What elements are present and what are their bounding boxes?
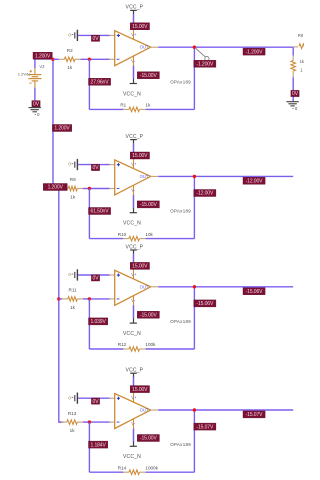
- resistor R7 load vertical: [291, 61, 296, 72]
- pin text OUT stage4: [140, 408, 149, 413]
- wire feedback down-leg stage4: [88, 422, 90, 472]
- wire feedback bottom-left stage2: [89, 238, 129, 240]
- svg-text:R12: R12: [118, 342, 127, 347]
- junction output node stage3: [193, 285, 196, 288]
- label VCC_P stage4: [126, 368, 144, 374]
- svg-text:V+: V+: [131, 272, 137, 277]
- label OPAx189 stage2: [170, 209, 191, 214]
- pin text V+ stage4: [131, 395, 137, 400]
- svg-text:VCC_P: VCC_P: [126, 134, 144, 140]
- svg-text:V3: V3: [39, 64, 45, 69]
- svg-text:-15.06V: -15.06V: [196, 301, 214, 307]
- wire feedback up-leg stage2: [193, 176, 195, 238]
- power terminal VCC_N stage2: [130, 208, 137, 213]
- pin + mark stage4: [117, 397, 120, 400]
- svg-text:V+: V+: [131, 395, 137, 400]
- svg-text:0V: 0V: [93, 399, 100, 405]
- wire resistor to - input stage3: [77, 298, 114, 300]
- pin text V+ stage2: [131, 161, 137, 166]
- node label 27.96nV stage1: [89, 78, 111, 85]
- node label -12.00V at output junction stage2: [194, 190, 216, 197]
- svg-text:-15.00V: -15.00V: [140, 436, 158, 442]
- node label 0V at V3: [32, 101, 40, 108]
- svg-text:1000k: 1000k: [145, 465, 158, 470]
- wire output stage1: [158, 46, 293, 48]
- resistor R1 1k feedback stage1: [129, 107, 140, 112]
- svg-text:100k: 100k: [145, 342, 156, 347]
- svg-text:-1.200V: -1.200V: [246, 49, 264, 55]
- ground right / net 0: [286, 102, 298, 111]
- svg-text:1.200V: 1.200V: [54, 126, 70, 132]
- power terminal VCC_P stage2: [130, 140, 137, 144]
- svg-text:15.00V: 15.00V: [132, 24, 148, 30]
- node label 1.200V stage2: [43, 184, 67, 191]
- pin text OUT stage1: [140, 45, 149, 50]
- battery V3 1.2Vdc: [28, 68, 41, 87]
- svg-text:-12.00V: -12.00V: [196, 191, 214, 197]
- wire feedback up-leg stage1: [193, 47, 195, 109]
- node label 1.200V on rail: [52, 125, 71, 132]
- node label -15.00V stage2: [137, 201, 159, 208]
- ground at V3 / net 0: [29, 108, 41, 117]
- svg-text:27.96nV: 27.96nV: [91, 80, 110, 86]
- value 1k of R9: [70, 194, 76, 199]
- node label 1.200V at V3: [33, 52, 52, 59]
- wire 0V source to op-amp + input stage4: [78, 397, 115, 399]
- wire resistor to - input stage2: [77, 188, 115, 190]
- svg-text:R14: R14: [118, 465, 127, 470]
- label R14: [118, 465, 127, 470]
- label 10k of R7: [300, 59, 305, 73]
- wire resistor to - input stage4: [77, 421, 114, 423]
- node label 15.00V stage2: [130, 152, 149, 159]
- svg-text:OUT: OUT: [140, 174, 149, 179]
- svg-text:-12.00V: -12.00V: [246, 179, 264, 185]
- node label 15.00V stage3: [130, 262, 149, 269]
- voltage source V3 top wire / node 1.200V: [35, 56, 53, 68]
- node label 0V stage1: [91, 35, 99, 42]
- wire rail 1.200V stage2-4: [59, 190, 64, 423]
- pin text V- stage1: [131, 58, 136, 63]
- wire 0V source to op-amp + input stage3: [78, 274, 115, 276]
- node label 0V stage3: [91, 275, 99, 282]
- svg-text:0V: 0V: [93, 165, 100, 171]
- svg-text:-15.00V: -15.00V: [140, 313, 158, 319]
- node label -15.00V stage4: [137, 435, 159, 442]
- pin - mark stage2: [117, 188, 120, 190]
- svg-text:-15.07V: -15.07V: [196, 424, 214, 430]
- label R12: [118, 342, 127, 347]
- wire rail 1.200V stage1-2: [52, 59, 54, 190]
- svg-text:VCC_P: VCC_P: [126, 244, 144, 250]
- svg-text:OPAx189: OPAx189: [170, 209, 191, 214]
- wire feedback down-leg stage1: [88, 59, 90, 109]
- node label -15.06V on output wire stage3: [243, 288, 265, 295]
- label R10: [118, 232, 127, 237]
- label VCC_N stage4: [123, 454, 141, 460]
- wire lead to load resistor: [292, 55, 294, 60]
- svg-text:1.039V: 1.039V: [90, 319, 106, 325]
- pin text V- stage4: [131, 421, 136, 426]
- wire VCC_P to op-amp stage1: [133, 14, 135, 40]
- svg-text:0: 0: [68, 395, 71, 400]
- value 1k of R11: [70, 305, 76, 310]
- label VCC_P stage1: [126, 5, 144, 11]
- svg-text:0V: 0V: [33, 101, 40, 107]
- pin - mark stage1: [117, 58, 120, 60]
- wire op-amp to VCC_N stage4: [133, 419, 135, 442]
- svg-text:R1: R1: [120, 103, 126, 108]
- wire rail to resistor stage2: [53, 188, 68, 190]
- pin + mark stage3: [117, 274, 120, 277]
- node label 0V right: [291, 90, 299, 97]
- probe marker stage1: [195, 48, 209, 61]
- voltage source 0V stage1 (battery): [68, 30, 77, 41]
- node label -15.07V at output junction stage4: [194, 423, 216, 430]
- value 1.2Vdc: [18, 71, 30, 76]
- wire op-amp output stub stage2: [151, 175, 159, 177]
- wire feedback bottom-left stage1: [89, 108, 129, 110]
- svg-text:1.2Vdc: 1.2Vdc: [18, 71, 30, 76]
- wire rail to resistor stage4: [59, 421, 67, 423]
- svg-text:0: 0: [68, 272, 71, 277]
- label R11: [69, 288, 78, 293]
- junction rail-input stage1: [51, 58, 54, 61]
- resistor R11 1k stage3 input: [68, 297, 78, 302]
- op-amp U3 OPAx189: [115, 270, 151, 305]
- svg-text:R13: R13: [68, 411, 77, 416]
- junction output node stage4: [193, 408, 196, 411]
- pin text OUT stage2: [140, 174, 149, 179]
- svg-text:V+: V+: [131, 161, 137, 166]
- label R1: [120, 103, 126, 108]
- resistor R13 1k stage4 input: [67, 420, 78, 425]
- label R2: [67, 48, 73, 53]
- svg-text:VCC_N: VCC_N: [123, 331, 141, 337]
- wire rail to resistor stage1: [53, 58, 64, 60]
- svg-text:1.200V: 1.200V: [35, 53, 51, 59]
- svg-text:OPAx189: OPAx189: [170, 442, 191, 447]
- voltage source 0V stage4 (battery): [68, 393, 77, 404]
- svg-text:-15.00V: -15.00V: [140, 202, 158, 208]
- wire resistor to - input stage1: [75, 58, 115, 60]
- op-amp U4 OPAx189: [115, 394, 151, 429]
- svg-text:OUT: OUT: [140, 408, 149, 413]
- node label 1.184V stage4: [89, 441, 108, 448]
- wire to resistor R8: [293, 46, 298, 48]
- svg-text:1k: 1k: [300, 59, 304, 64]
- node label -15.06V at output junction stage3: [194, 300, 216, 307]
- svg-text:-1.200V: -1.200V: [196, 62, 214, 68]
- node label 0V stage2: [91, 164, 99, 171]
- svg-text:15.00V: 15.00V: [132, 387, 148, 393]
- node label -1.200V on output wire stage1: [243, 48, 265, 55]
- svg-text:R10: R10: [118, 232, 127, 237]
- svg-text:VCC_N: VCC_N: [123, 454, 141, 460]
- power terminal VCC_P stage1: [130, 10, 137, 14]
- wire feedback bottom-right stage4: [140, 471, 195, 473]
- power terminal VCC_N stage3: [130, 318, 137, 323]
- junction output node stage1: [193, 46, 196, 49]
- node label -1.200V at output junction stage1: [194, 60, 216, 67]
- wire VCC_P to op-amp stage4: [133, 377, 135, 403]
- wire feedback bottom-right stage1: [140, 108, 195, 110]
- label V3: [39, 64, 45, 69]
- power terminal VCC_N stage1: [130, 79, 137, 84]
- wire VCC_P to op-amp stage2: [133, 143, 135, 169]
- label VCC_N stage1: [123, 91, 141, 97]
- value 1k of R1: [145, 103, 151, 108]
- svg-text:VCC_P: VCC_P: [126, 5, 144, 11]
- value 1k of R13: [70, 428, 76, 433]
- wire op-amp to VCC_N stage1: [133, 56, 135, 79]
- wire 0V source to op-amp + input stage2: [78, 164, 115, 166]
- svg-text:R9: R9: [70, 177, 76, 182]
- junction - input node stage3: [88, 297, 91, 300]
- junction - input node stage2: [88, 187, 91, 190]
- junction - input node stage1: [88, 58, 91, 61]
- svg-text:1.184V: 1.184V: [90, 442, 106, 448]
- wire feedback bottom-left stage4: [89, 471, 129, 473]
- value 100k of R12: [145, 342, 156, 347]
- node label -15.00V stage3: [137, 311, 159, 318]
- node label 0V stage4: [91, 398, 99, 405]
- svg-text:VCC_P: VCC_P: [126, 368, 144, 374]
- svg-text:1k: 1k: [70, 428, 76, 433]
- svg-text:OPAx189: OPAx189: [170, 79, 191, 84]
- power terminal VCC_P stage3: [130, 250, 137, 254]
- svg-text:0: 0: [68, 33, 71, 38]
- wire output stage3: [158, 286, 293, 288]
- label VCC_N stage2: [123, 221, 141, 227]
- svg-text:V+: V+: [131, 32, 137, 37]
- resistor R12 100k feedback stage3: [129, 347, 140, 352]
- pin text V+ stage3: [131, 272, 137, 277]
- wire op-amp output stub stage4: [151, 409, 159, 411]
- svg-text:VCC_N: VCC_N: [123, 91, 141, 97]
- label VCC_P stage3: [126, 244, 144, 250]
- label R8: [298, 33, 304, 38]
- wire rail to resistor stage3: [59, 298, 68, 300]
- svg-text:R2: R2: [67, 48, 73, 53]
- pin - mark stage4: [117, 421, 120, 423]
- svg-text:OUT: OUT: [140, 284, 149, 289]
- label OPAx189 stage1: [170, 79, 191, 84]
- wire load resistor to ground: [292, 71, 294, 101]
- svg-text:1k: 1k: [70, 194, 76, 199]
- voltage source 0V stage3 (battery): [68, 269, 77, 280]
- wire feedback up-leg stage4: [193, 410, 195, 472]
- value 10k of R10: [145, 232, 153, 237]
- svg-text:61.50nV: 61.50nV: [91, 209, 110, 215]
- wire 0V source to op-amp + input stage1: [78, 34, 115, 36]
- node label 15.00V stage4: [130, 386, 149, 393]
- pin text OUT stage3: [140, 284, 149, 289]
- svg-text:1k: 1k: [70, 305, 76, 310]
- node label 1.039V stage3: [89, 318, 108, 325]
- label OPAx189 stage4: [170, 442, 191, 447]
- wire output corner down stage1: [292, 47, 294, 56]
- power terminal VCC_P stage4: [130, 373, 137, 377]
- svg-text:0V: 0V: [93, 276, 100, 282]
- wire VCC_P to op-amp stage3: [133, 254, 135, 280]
- svg-text:0V: 0V: [292, 91, 299, 97]
- wire feedback down-leg stage3: [88, 299, 90, 349]
- svg-text:10k: 10k: [145, 232, 153, 237]
- junction - input node stage4: [88, 420, 91, 423]
- svg-text:1k: 1k: [67, 65, 73, 70]
- wire output stage4: [158, 409, 293, 411]
- svg-text:15.00V: 15.00V: [132, 153, 148, 159]
- svg-text:1.200V: 1.200V: [48, 185, 64, 191]
- svg-text:VCC_N: VCC_N: [123, 221, 141, 227]
- svg-text:-15.07V: -15.07V: [246, 412, 264, 418]
- svg-text:OUT: OUT: [140, 45, 149, 50]
- label VCC_N stage3: [123, 331, 141, 337]
- resistor R8 horizontal: [299, 44, 310, 49]
- wire feedback down-leg stage2: [88, 189, 90, 239]
- wire output stage2: [158, 175, 293, 177]
- value 1000k of R14: [145, 465, 158, 470]
- junction rail-input stage3: [57, 297, 60, 300]
- pin + mark stage2: [117, 163, 120, 166]
- svg-text:0: 0: [68, 162, 71, 167]
- svg-text:0V: 0V: [93, 36, 100, 42]
- label OPAx189 stage3: [170, 319, 191, 324]
- resistor R2 1k stage1 input: [64, 57, 75, 62]
- pin + mark stage1: [117, 34, 120, 37]
- resistor R14 1000k feedback stage4: [129, 470, 140, 475]
- pin text V- stage3: [131, 298, 136, 303]
- label R13: [68, 411, 77, 416]
- svg-text:R8: R8: [298, 33, 304, 38]
- wire feedback bottom-right stage2: [140, 238, 195, 240]
- pin text V- stage2: [131, 188, 136, 193]
- wire V3 to ground: [34, 88, 36, 108]
- wire feedback bottom-right stage3: [140, 348, 195, 350]
- node label 61.50nV stage2: [89, 208, 111, 215]
- pin text V+ stage1: [131, 32, 137, 37]
- wire op-amp output stub stage3: [151, 286, 159, 288]
- resistor R10 10k feedback stage2: [129, 236, 140, 241]
- pin - mark stage3: [117, 298, 120, 300]
- svg-text:OPAx189: OPAx189: [170, 319, 191, 324]
- wire op-amp to VCC_N stage3: [133, 295, 135, 318]
- node label -15.00V stage1: [137, 72, 159, 79]
- svg-text:R11: R11: [69, 288, 78, 293]
- op-amp U1 OPAx189: [115, 31, 151, 66]
- wire op-amp to VCC_N stage2: [133, 185, 135, 208]
- label R9: [70, 177, 76, 182]
- svg-text:1k: 1k: [145, 103, 151, 108]
- node label -15.07V on output wire stage4: [243, 411, 265, 418]
- resistor R9 1k stage2 input: [68, 186, 77, 191]
- junction output node stage2: [193, 175, 196, 178]
- wire feedback bottom-left stage3: [89, 348, 129, 350]
- wire feedback up-leg stage3: [193, 287, 195, 349]
- label VCC_P stage2: [126, 134, 144, 140]
- value 1k of R2: [67, 65, 73, 70]
- wire op-amp output stub stage1: [151, 46, 159, 48]
- power terminal VCC_N stage4: [130, 442, 137, 447]
- op-amp U2 OPAx189: [115, 160, 151, 195]
- svg-text:-15.06V: -15.06V: [246, 289, 264, 295]
- voltage source 0V stage2 (battery): [68, 159, 77, 170]
- node label 15.00V stage1: [130, 23, 149, 30]
- svg-text:15.00V: 15.00V: [132, 264, 148, 270]
- node label -12.00V on output wire stage2: [243, 177, 265, 184]
- svg-text:-15.00V: -15.00V: [140, 73, 158, 79]
